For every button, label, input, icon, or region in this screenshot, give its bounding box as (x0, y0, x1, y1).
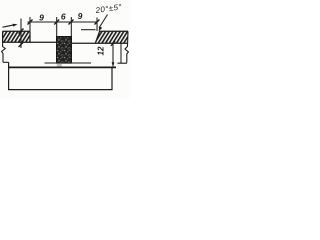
svg-text:12: 12 (97, 46, 106, 55)
right plate hatch fill (96, 31, 128, 43)
slash tick at plate bottom (19, 42, 24, 47)
right thickness dimension line (112, 43, 114, 66)
backing strip top surface left segment + left plate bottom (3, 41, 57, 43)
dimension line 9/6/9 (28, 21, 98, 23)
left plate outline (3, 31, 30, 42)
leader arrow top-left (3, 25, 15, 27)
svg-text:6: 6 (61, 12, 66, 22)
background (0, 0, 130, 98)
backing strip bottom left step (3, 61, 9, 63)
slash tick at right plate bottom (111, 41, 115, 45)
slash tick at plate top (19, 29, 24, 34)
extension line at x=97 (96, 18, 98, 32)
left plate hatch fill (3, 31, 30, 42)
spacer block (dark) (56, 36, 71, 63)
bevel angle reference line (81, 29, 96, 31)
svg-text:9: 9 (78, 11, 83, 21)
slash tick at 71 (69, 20, 74, 25)
extension line at x=57 (56, 17, 58, 36)
smudge under spacer block (57, 64, 62, 67)
right broken edge with break zigzag (125, 31, 128, 62)
right plate bottom + backing top surface right segment (71, 42, 128, 44)
bevel leader arrowhead (99, 26, 103, 31)
right plate outline (top, bevel, right broken edge) (95, 31, 128, 43)
left thickness dimension line (20, 19, 22, 49)
slash tick at 97 (95, 20, 100, 25)
extension line at x=30 (29, 17, 31, 31)
svg-text:9: 9 (39, 13, 44, 23)
bevel leader line (99, 15, 108, 29)
backing strip bottom right segments (45, 62, 128, 64)
left plate / backing broken left edge with break zigzag (2, 42, 6, 62)
slash tick at 30 (28, 20, 33, 25)
slash tick at 57 (54, 20, 59, 25)
extension line at x=71 (70, 17, 72, 36)
bottom plate (large rectangle) (9, 66, 116, 68)
arrowhead down at bottom plate top (112, 62, 115, 67)
extension line at x=121 (120, 44, 122, 64)
